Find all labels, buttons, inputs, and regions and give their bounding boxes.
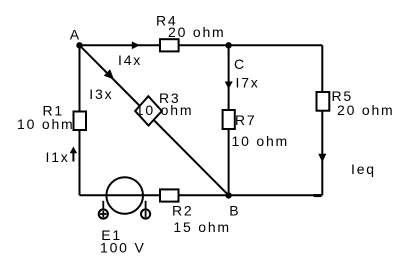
svg-text:I3x: I3x	[89, 86, 113, 102]
current arrow Ieq	[318, 154, 326, 163]
svg-text:20 ohm: 20 ohm	[168, 24, 226, 40]
E1 minus terminal circle	[141, 209, 150, 218]
E1 plus terminal circle	[99, 209, 108, 218]
svg-text:15 ohm: 15 ohm	[173, 219, 231, 235]
wire middle vertical C to B	[228, 45, 230, 195]
svg-text:R2: R2	[172, 203, 194, 219]
wire bottom right corner to B	[229, 194, 323, 196]
voltage source E1 circle	[106, 177, 143, 214]
resistor R7	[223, 110, 235, 129]
svg-text:20 ohm: 20 ohm	[337, 102, 395, 118]
current arrow I4x	[132, 41, 140, 49]
resistor R3 (rotated)	[135, 96, 162, 125]
svg-text:I7x: I7x	[236, 75, 260, 91]
E1 plus terminal stub	[102, 201, 104, 209]
svg-text:10 ohm: 10 ohm	[17, 116, 75, 132]
svg-text:I1x: I1x	[46, 149, 70, 165]
wire R2 to E1 to bottom-left corner	[80, 194, 162, 196]
wire diagonal A to B	[80, 45, 229, 195]
svg-text:10 ohm: 10 ohm	[136, 102, 194, 118]
current arrow I3x	[104, 69, 114, 79]
svg-text:C: C	[234, 56, 246, 72]
wire B to R2	[178, 194, 229, 196]
svg-text:Ieq: Ieq	[351, 161, 376, 177]
current arrow I7x	[225, 82, 233, 90]
svg-text:I4x: I4x	[118, 52, 142, 68]
svg-text:B: B	[229, 203, 240, 219]
node A	[76, 42, 82, 48]
E1 minus terminal stub	[145, 201, 147, 209]
node B	[225, 192, 231, 198]
wire top C to top-right corner	[229, 44, 323, 46]
resistor R1	[74, 112, 87, 131]
svg-text:10 ohm: 10 ohm	[232, 133, 290, 149]
wire top R4 to C	[177, 44, 229, 46]
resistor R4	[160, 39, 179, 51]
wire overlap segment at bottom-right corner	[314, 194, 322, 197]
resistor R2	[160, 189, 179, 201]
current arrow I1x	[70, 147, 77, 162]
wire top A to R4	[80, 44, 162, 46]
svg-text:100 V: 100 V	[100, 240, 146, 256]
svg-text:A: A	[70, 27, 81, 43]
node C	[225, 42, 231, 48]
svg-text:R7: R7	[235, 112, 257, 128]
wire right vertical	[321, 45, 323, 195]
wire left vertical	[79, 45, 81, 195]
resistor R5	[317, 92, 330, 111]
